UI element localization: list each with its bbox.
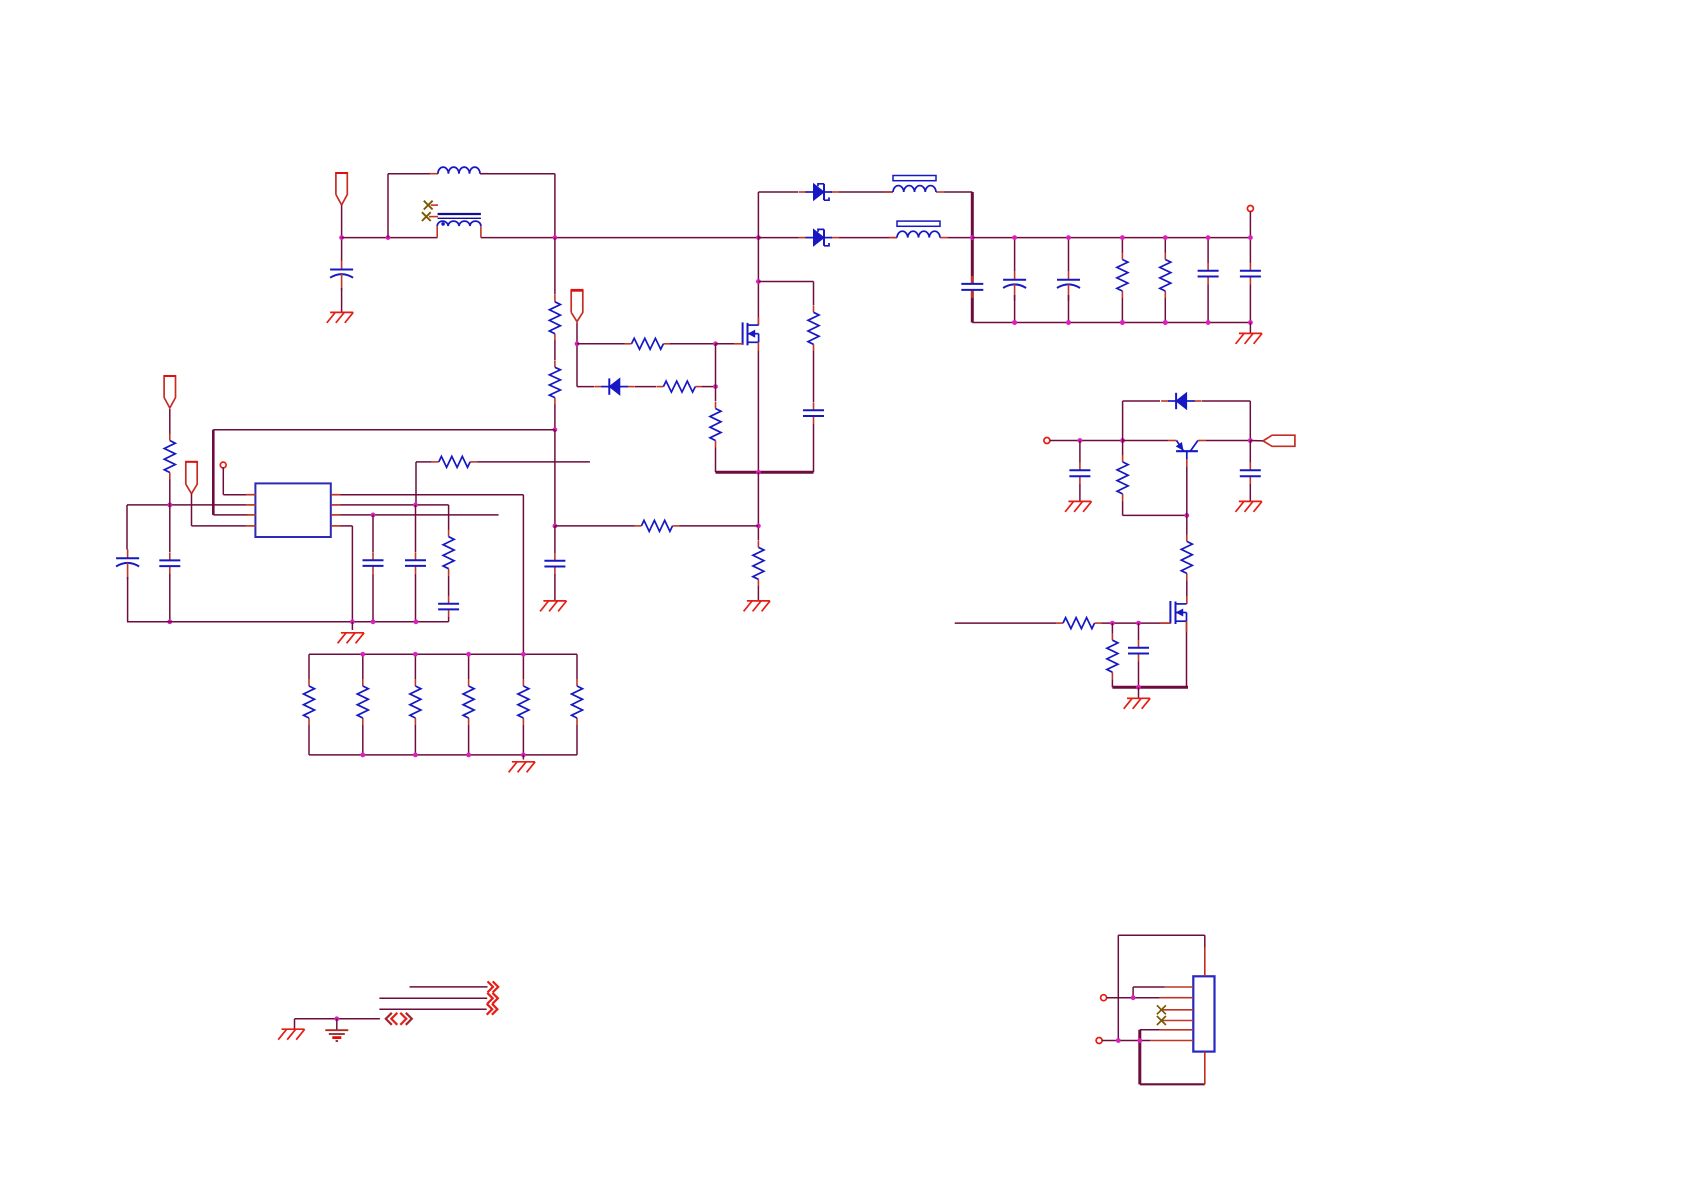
node bus divider junction	[553, 235, 558, 240]
pin J1-5 lead	[1160, 1029, 1194, 1031]
port terminal	[1096, 1038, 1102, 1044]
transformer T1 core	[438, 214, 481, 218]
node	[1163, 235, 1168, 240]
node drain-snubber junction	[756, 279, 761, 284]
ground	[338, 633, 365, 644]
node base junction	[1184, 513, 1189, 518]
wire CS link	[555, 525, 635, 527]
wire	[448, 505, 450, 530]
wire	[757, 472, 759, 540]
wire	[1249, 238, 1251, 263]
ground	[509, 762, 535, 773]
node	[360, 652, 365, 657]
node	[1066, 320, 1071, 325]
wire	[1132, 987, 1134, 998]
wire	[813, 351, 815, 402]
port terminal	[1044, 438, 1050, 444]
capacitor C1	[330, 261, 353, 291]
pin U1 right 1	[331, 494, 340, 496]
wire source rail thick	[716, 471, 814, 474]
wire	[839, 237, 897, 239]
wire	[415, 505, 417, 552]
resistor R10	[634, 520, 679, 531]
inductor L3 with core bar	[889, 221, 948, 238]
IC U1 (controller)	[255, 483, 330, 537]
wire	[1249, 441, 1251, 463]
node bus-loop junction	[386, 235, 391, 240]
wire output bottom rail	[972, 322, 1250, 324]
wire	[169, 409, 171, 435]
node	[521, 753, 526, 758]
wire red bottom pin riser	[1204, 1052, 1206, 1085]
wire	[1111, 623, 1113, 633]
off-page connector chevron 1	[488, 981, 499, 992]
node	[1248, 235, 1253, 240]
ground	[1065, 501, 1092, 512]
resistor R4 (sense)	[753, 540, 764, 586]
off-page connector chevron 3	[487, 1004, 498, 1015]
wire	[702, 386, 716, 388]
port P1 (AC input)	[335, 173, 347, 205]
wire	[415, 574, 417, 622]
wire FB vertical thick	[212, 430, 215, 515]
capacitor C11	[363, 552, 384, 574]
node	[1078, 438, 1083, 443]
wire	[1122, 401, 1124, 441]
node	[371, 513, 376, 518]
node	[1131, 995, 1136, 1000]
resistor R20	[1117, 455, 1128, 501]
node CS-FB junction	[553, 524, 558, 529]
wire	[554, 430, 556, 526]
node	[466, 753, 471, 758]
wire	[362, 654, 364, 679]
node	[413, 503, 418, 508]
ground	[1124, 698, 1151, 709]
wire bank top rail	[309, 653, 577, 655]
diode D1 (schottky)	[799, 184, 840, 200]
wire	[1249, 401, 1251, 441]
pin U1 right 2	[331, 504, 340, 506]
wire	[1164, 238, 1166, 253]
wire	[341, 494, 524, 496]
transistor Q1 (MOSFET)	[743, 322, 759, 345]
wire	[813, 424, 815, 472]
wire	[1111, 679, 1113, 687]
wire	[522, 755, 524, 760]
wire	[1107, 997, 1160, 999]
wire	[1118, 934, 1205, 936]
node	[360, 753, 365, 758]
node	[1120, 235, 1125, 240]
node	[1136, 685, 1141, 690]
pin U1 right 4	[331, 525, 340, 527]
wire	[522, 495, 524, 655]
port P2 (gate drive)	[571, 290, 584, 321]
wire	[576, 323, 578, 387]
wire	[192, 525, 247, 527]
resistor R9	[549, 360, 560, 404]
wire gate red lead	[734, 343, 743, 345]
node	[1066, 320, 1071, 325]
wire	[362, 725, 364, 755]
pin U1 left 4	[246, 525, 255, 527]
node	[167, 503, 172, 508]
wire	[522, 654, 524, 679]
wire	[1014, 295, 1016, 323]
node	[413, 652, 418, 657]
wire ground link	[295, 1018, 380, 1020]
wire	[351, 622, 353, 630]
wire	[757, 586, 759, 601]
port terminal	[1101, 995, 1107, 1001]
node FB junction	[553, 427, 558, 432]
capacitor C9 (polarized)	[116, 549, 139, 579]
ground	[540, 601, 567, 612]
wire	[813, 282, 815, 306]
node	[1116, 1038, 1121, 1043]
wire	[372, 515, 374, 552]
node	[371, 619, 376, 624]
node	[1206, 235, 1211, 240]
node gate junction	[713, 341, 718, 346]
wire	[294, 1019, 296, 1029]
wire loop top-left	[388, 173, 438, 175]
node bus diode junction	[756, 235, 761, 240]
node	[334, 1016, 339, 1021]
resistor R14	[304, 679, 315, 725]
wire	[554, 574, 556, 601]
wire	[1133, 986, 1165, 988]
wire	[758, 237, 798, 239]
wire	[1249, 484, 1251, 501]
pin J1-3 lead	[1161, 1009, 1193, 1011]
node	[1110, 621, 1115, 626]
wire gate red lead	[1160, 622, 1170, 624]
wire snubber top	[758, 281, 813, 283]
wire	[127, 577, 129, 622]
wire	[169, 505, 171, 552]
node	[1137, 1038, 1142, 1043]
wire	[308, 654, 310, 679]
wire thick source rail	[1112, 686, 1188, 689]
node	[1163, 320, 1168, 325]
wire loop top-right	[480, 173, 555, 175]
node	[1066, 235, 1071, 240]
node	[521, 652, 526, 657]
wire	[680, 525, 759, 527]
wire	[477, 461, 590, 463]
node	[167, 619, 172, 624]
node	[413, 753, 418, 758]
ground	[327, 312, 354, 323]
wire	[1123, 514, 1187, 516]
wire	[414, 654, 416, 679]
wire	[213, 514, 248, 516]
wire	[1050, 440, 1123, 442]
wire	[1207, 285, 1209, 323]
wire	[1138, 662, 1140, 688]
wire ground rail	[127, 621, 449, 623]
node	[1012, 320, 1017, 325]
wire	[554, 526, 556, 553]
ground	[278, 1029, 305, 1040]
resistor R3 (snubber)	[808, 305, 819, 351]
wire bottom loop	[1140, 1083, 1205, 1085]
wire	[1122, 441, 1124, 456]
wire thick output riser	[971, 192, 974, 283]
resistor R16	[410, 679, 421, 725]
wire	[1138, 623, 1140, 640]
wire	[341, 205, 343, 261]
wire	[1249, 212, 1251, 238]
pin U1 left 1	[246, 494, 255, 496]
capacitor C10	[159, 552, 180, 574]
wire	[554, 341, 556, 361]
wire source	[757, 351, 759, 472]
wire thick cap column	[971, 291, 974, 323]
pin U1 left 2	[246, 504, 255, 506]
wire	[1249, 285, 1251, 323]
resistor R22	[1056, 618, 1102, 629]
wire	[169, 480, 171, 505]
transformer T1 primary X no-connect 2	[422, 212, 438, 221]
wire	[351, 526, 353, 622]
wire	[1117, 935, 1119, 1040]
wire	[577, 343, 625, 345]
inductor L1	[430, 167, 488, 174]
port test point TP1	[220, 462, 226, 468]
port VOUT terminal	[1247, 206, 1253, 212]
wire	[468, 654, 470, 679]
wire	[1249, 323, 1251, 334]
capacitor C8	[544, 553, 565, 575]
resistor R23	[1107, 633, 1118, 679]
resistor R12	[164, 434, 175, 480]
resistor R8	[549, 295, 560, 341]
resistor R18	[518, 679, 529, 725]
node	[1120, 320, 1125, 325]
wire off-page 2	[379, 997, 487, 999]
node	[1012, 235, 1017, 240]
node	[1136, 621, 1141, 626]
wire	[341, 504, 449, 506]
diode D2 (schottky)	[799, 229, 840, 245]
wire loop left	[387, 174, 389, 238]
node	[1248, 320, 1253, 325]
off-page connector bidirectional	[386, 1013, 412, 1025]
resistor R17	[463, 679, 474, 725]
wire	[336, 1019, 338, 1030]
capacitor C6	[1240, 263, 1261, 285]
wire	[1140, 1029, 1160, 1031]
wire	[635, 386, 656, 388]
wire emitter	[1123, 440, 1168, 442]
node	[713, 384, 718, 389]
node CS junction	[756, 524, 761, 529]
wire	[944, 191, 972, 193]
wire	[554, 238, 556, 295]
wire	[1186, 580, 1188, 604]
wire diode branch riser	[757, 192, 759, 238]
connector J1	[1193, 976, 1214, 1051]
wire	[1121, 298, 1123, 323]
resistor R2	[1160, 253, 1171, 299]
wire	[341, 288, 343, 312]
resistor R11	[432, 456, 477, 467]
port P3 (VCC)	[185, 462, 197, 494]
wire	[1079, 441, 1081, 463]
diode D3	[594, 378, 635, 394]
off-page connector chevron 2	[487, 993, 498, 1004]
wire	[1207, 238, 1209, 263]
wire red top pin riser	[1204, 947, 1206, 976]
capacitor C4 (polarized)	[1057, 271, 1080, 301]
wire source red lead	[1186, 621, 1188, 632]
wire drain red lead	[757, 317, 759, 325]
wire drain	[757, 238, 759, 326]
capacitor C5	[1198, 263, 1219, 285]
wire	[1186, 515, 1188, 534]
node source rail junction	[756, 470, 761, 475]
wire	[448, 617, 450, 622]
wire	[1102, 622, 1171, 624]
wire bank bottom rail	[309, 754, 577, 756]
capacitor C3 (polarized)	[1003, 271, 1026, 301]
resistor R1	[1117, 253, 1128, 299]
wire	[169, 574, 171, 622]
capacitor C14	[1069, 462, 1090, 484]
transformer T1 secondary winding	[437, 221, 481, 238]
capacitor C2	[961, 276, 983, 298]
node	[466, 652, 471, 657]
ground	[744, 601, 771, 612]
wire gate line	[955, 622, 1056, 624]
diode D4	[1161, 393, 1202, 409]
wire drain red lead	[1186, 596, 1188, 604]
pin J1-2 lead	[1160, 997, 1194, 999]
wire	[715, 344, 717, 401]
node bus-P1 junction	[339, 235, 344, 240]
wire	[1014, 238, 1016, 271]
node	[1163, 320, 1168, 325]
wire	[715, 448, 717, 473]
wire	[1204, 935, 1206, 948]
wire FB horizontal	[213, 429, 555, 431]
resistor R21	[1181, 534, 1192, 580]
wire	[522, 725, 524, 755]
capacitor C16	[1128, 640, 1149, 662]
wire	[839, 191, 893, 193]
wire collector	[1206, 440, 1250, 442]
port P4 (VIN)	[164, 376, 176, 408]
inductor L2 with core bar	[885, 176, 944, 193]
wire	[1079, 484, 1081, 501]
capacitor C15	[1240, 462, 1261, 484]
wire	[1102, 1040, 1150, 1042]
wire	[1068, 238, 1070, 271]
wire bus	[342, 237, 438, 239]
ground	[1236, 333, 1263, 344]
no-connect X on J1-3	[1157, 1005, 1166, 1014]
wire	[1068, 295, 1070, 323]
wire	[1164, 298, 1166, 323]
wire	[341, 514, 499, 516]
wire	[414, 725, 416, 755]
no-connect X on J1-4	[1157, 1016, 1166, 1025]
transformer T1 primary X no-connect 1	[424, 201, 438, 210]
wire	[1121, 238, 1123, 253]
wire	[576, 725, 578, 755]
node	[1120, 438, 1125, 443]
wire	[372, 574, 374, 622]
port P5 (output tab)	[1263, 435, 1295, 446]
wire	[1250, 440, 1263, 442]
wire	[191, 494, 193, 526]
node output rail junction	[970, 235, 975, 240]
wire	[416, 461, 432, 463]
node	[1120, 320, 1125, 325]
node	[350, 619, 355, 624]
capacitor C13	[438, 596, 459, 618]
wire source red lead	[757, 342, 759, 351]
resistor R15	[357, 679, 368, 725]
wire	[576, 654, 578, 679]
wire off-page 3	[379, 1008, 486, 1010]
wire	[468, 725, 470, 755]
wire gate to Q1	[716, 343, 743, 345]
wire base	[1186, 467, 1188, 515]
resistor R13	[443, 530, 454, 576]
wire output top rail	[972, 237, 1250, 239]
wire	[670, 343, 716, 345]
wire	[223, 494, 246, 496]
wire thick	[1138, 1030, 1141, 1085]
wire	[415, 462, 417, 505]
wire	[448, 576, 450, 596]
wire	[126, 505, 128, 550]
resistor R6	[656, 381, 702, 392]
node	[1012, 320, 1017, 325]
node gate node A	[575, 341, 580, 346]
resistor R7 (pulldown)	[710, 402, 721, 448]
pin J1-4 lead	[1161, 1020, 1193, 1022]
transistor Q3 (PNP)	[1168, 441, 1206, 468]
wire VDD line	[127, 504, 246, 506]
pin U1 right 3	[331, 514, 340, 516]
wire loop right	[554, 174, 556, 238]
wire bus	[481, 237, 759, 239]
resistor R5 (gate)	[625, 338, 671, 349]
capacitor C12	[405, 552, 426, 574]
node	[414, 619, 419, 624]
node	[1248, 438, 1253, 443]
transistor Q2 (MOSFET)	[1170, 601, 1186, 624]
wire	[577, 386, 594, 388]
pin J1-1 lead	[1165, 986, 1194, 988]
resistor R19	[572, 679, 583, 725]
wire source	[1186, 621, 1188, 687]
wire	[554, 405, 556, 430]
wire	[222, 467, 224, 494]
wire	[1123, 400, 1160, 402]
wire off-page 1	[410, 986, 488, 988]
wire	[758, 191, 798, 193]
earth ground	[325, 1030, 348, 1041]
wire	[341, 525, 353, 527]
wire	[1138, 687, 1140, 698]
wire	[1202, 400, 1250, 402]
